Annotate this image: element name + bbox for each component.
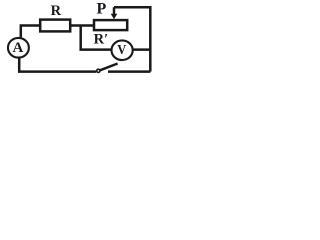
wire: left vertical + top-left segment to R	[21, 26, 40, 38]
switch (open)	[97, 64, 118, 73]
wire: ammeter to bottom-left corner and bottom wire to switch	[19, 58, 96, 71]
wire: switch fixed contact to bottom-right corner	[108, 70, 150, 73]
resistor R	[40, 20, 70, 32]
svg-text:V: V	[117, 43, 126, 58]
wire: wiper to top-right corner and right vertical down	[114, 7, 150, 71]
svg-text:R′: R′	[94, 31, 109, 47]
ammeter A	[8, 38, 29, 58]
rheostat body R'	[94, 20, 127, 30]
wire: R to rheostat with T junction	[70, 24, 94, 27]
wire: T junction drop to voltmeter left lead	[81, 26, 112, 50]
voltmeter V	[112, 40, 133, 60]
svg-text:P: P	[97, 0, 107, 17]
wire: voltmeter right lead to right vertical	[133, 48, 151, 51]
potentiometer wiper arrow P	[111, 7, 118, 19]
svg-text:R: R	[51, 3, 62, 19]
svg-text:A: A	[12, 40, 23, 56]
